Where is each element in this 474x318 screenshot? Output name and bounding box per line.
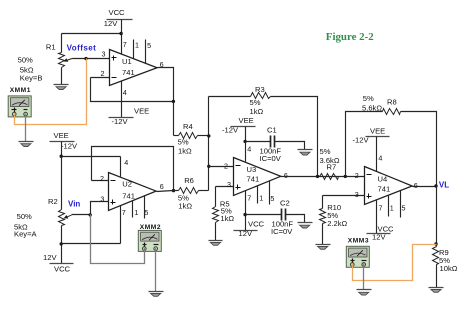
svg-text:5.6kΩ: 5.6kΩ bbox=[362, 104, 382, 113]
svg-text:C1: C1 bbox=[267, 125, 277, 134]
svg-text:Key=A: Key=A bbox=[14, 229, 38, 238]
svg-text:741: 741 bbox=[122, 68, 135, 77]
svg-text:7: 7 bbox=[122, 208, 126, 217]
svg-text:741: 741 bbox=[378, 184, 391, 193]
svg-text:XMM3: XMM3 bbox=[348, 237, 369, 244]
svg-text:VCC: VCC bbox=[248, 219, 265, 228]
svg-text:C2: C2 bbox=[280, 199, 290, 208]
svg-text:6: 6 bbox=[284, 171, 288, 180]
svg-text:-12V: -12V bbox=[353, 136, 370, 145]
svg-text:5%: 5% bbox=[178, 138, 189, 147]
svg-text:12V: 12V bbox=[372, 233, 386, 242]
svg-text:XMM2: XMM2 bbox=[140, 224, 161, 231]
svg-text:Figure 2-2: Figure 2-2 bbox=[326, 31, 374, 43]
svg-text:U3: U3 bbox=[247, 165, 257, 174]
svg-text:2.2kΩ: 2.2kΩ bbox=[327, 219, 347, 228]
svg-text:6: 6 bbox=[160, 60, 164, 69]
svg-text:U1: U1 bbox=[122, 57, 132, 66]
svg-text:1: 1 bbox=[134, 208, 138, 217]
svg-text:Key=B: Key=B bbox=[20, 74, 43, 83]
svg-text:1: 1 bbox=[390, 203, 394, 212]
svg-text:1kΩ: 1kΩ bbox=[220, 214, 234, 223]
svg-text:50%: 50% bbox=[18, 56, 33, 65]
svg-text:1kΩ: 1kΩ bbox=[178, 147, 192, 156]
svg-text:R6: R6 bbox=[184, 176, 194, 185]
svg-text:12V: 12V bbox=[104, 19, 118, 28]
svg-text:3: 3 bbox=[102, 49, 106, 58]
svg-text:5: 5 bbox=[270, 194, 274, 203]
svg-text:5: 5 bbox=[147, 41, 151, 50]
svg-text:7: 7 bbox=[379, 203, 383, 212]
svg-text:50%: 50% bbox=[17, 212, 32, 221]
svg-text:5: 5 bbox=[144, 208, 148, 217]
svg-text:R3: R3 bbox=[255, 85, 265, 94]
svg-text:5%: 5% bbox=[250, 98, 261, 107]
svg-text:IC=0V: IC=0V bbox=[260, 154, 282, 163]
svg-text:7: 7 bbox=[247, 194, 251, 203]
svg-text:5%: 5% bbox=[363, 94, 374, 103]
svg-text:1kΩ: 1kΩ bbox=[250, 107, 264, 116]
svg-text:2: 2 bbox=[224, 161, 228, 170]
svg-text:6: 6 bbox=[160, 182, 164, 191]
svg-text:Vin: Vin bbox=[68, 199, 80, 208]
svg-text:Voffset: Voffset bbox=[67, 43, 97, 52]
svg-text:3: 3 bbox=[100, 194, 104, 203]
svg-text:VEE: VEE bbox=[54, 131, 69, 140]
svg-text:2: 2 bbox=[355, 171, 359, 180]
svg-text:1: 1 bbox=[135, 40, 139, 49]
svg-text:4: 4 bbox=[378, 153, 382, 162]
svg-text:-12V: -12V bbox=[61, 142, 78, 151]
svg-text:U2: U2 bbox=[122, 179, 132, 188]
svg-text:VCC: VCC bbox=[109, 8, 126, 17]
svg-text:3: 3 bbox=[355, 190, 359, 199]
svg-text:IC=0V: IC=0V bbox=[271, 227, 293, 236]
svg-text:3: 3 bbox=[227, 180, 231, 189]
svg-text:2: 2 bbox=[101, 69, 105, 78]
svg-text:VEE: VEE bbox=[370, 127, 385, 136]
svg-text:4: 4 bbox=[123, 88, 127, 97]
svg-text:-12V: -12V bbox=[112, 117, 129, 126]
svg-text:1: 1 bbox=[259, 194, 263, 203]
svg-text:1kΩ: 1kΩ bbox=[178, 202, 192, 211]
svg-text:2: 2 bbox=[100, 174, 104, 183]
svg-text:VEE: VEE bbox=[134, 107, 149, 116]
svg-text:XMM1: XMM1 bbox=[10, 87, 31, 94]
svg-text:5%: 5% bbox=[320, 147, 331, 156]
svg-text:4: 4 bbox=[247, 144, 251, 153]
svg-text:5: 5 bbox=[402, 204, 406, 213]
svg-text:4: 4 bbox=[124, 158, 128, 167]
svg-text:741: 741 bbox=[122, 191, 135, 200]
svg-text:R7: R7 bbox=[327, 163, 337, 172]
svg-text:U4: U4 bbox=[378, 175, 388, 184]
svg-text:VL: VL bbox=[439, 181, 449, 190]
svg-text:R8: R8 bbox=[387, 98, 397, 107]
svg-text:R4: R4 bbox=[183, 122, 193, 131]
svg-text:7: 7 bbox=[123, 40, 127, 49]
svg-text:-12V: -12V bbox=[222, 125, 239, 134]
svg-text:10kΩ: 10kΩ bbox=[440, 264, 458, 273]
svg-text:VEE: VEE bbox=[239, 116, 254, 125]
svg-text:6: 6 bbox=[414, 181, 418, 190]
svg-text:VCC: VCC bbox=[54, 265, 71, 274]
svg-text:12V: 12V bbox=[43, 253, 57, 262]
svg-text:R2: R2 bbox=[48, 197, 58, 206]
svg-text:R1: R1 bbox=[46, 42, 56, 51]
svg-text:741: 741 bbox=[247, 175, 260, 184]
